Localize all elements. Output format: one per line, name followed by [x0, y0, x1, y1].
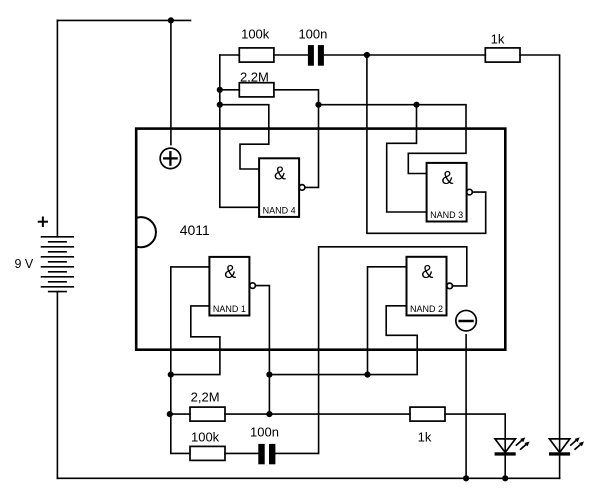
svg-text:9 V: 9 V — [15, 257, 34, 271]
plus supply terminal circle — [160, 148, 181, 169]
wire NAND2 input 2 loop from NAND1 output node — [269, 306, 417, 375]
wire 2,2M bottom left — [170, 413, 190, 415]
wire NAND1 output down to 2,2M right node — [255, 286, 269, 415]
node junction dot NAND1 inputs — [168, 372, 174, 378]
resistor R3 2.2M top — [239, 83, 274, 97]
svg-text:&: & — [224, 262, 236, 282]
svg-text:100n: 100n — [250, 425, 279, 440]
op NAND 4 gate U1d — [259, 158, 305, 217]
wire 2,2M left to net vertical — [220, 89, 240, 91]
svg-text:NAND 1: NAND 1 — [213, 304, 246, 314]
minus supply terminal circle — [456, 310, 477, 331]
node junction dot 2,2M left — [217, 87, 223, 93]
svg-text:2,2M: 2,2M — [191, 390, 220, 405]
resistor R5 100k bottom — [190, 446, 225, 460]
wire from top rail down to plus terminal circle — [170, 20, 172, 144]
capacitor C1 100n top — [308, 45, 324, 66]
node junction dot NAND1 output branch — [266, 372, 272, 378]
wire NAND2 input 1 down to node — [368, 267, 407, 375]
wire top rail from battery to stub end — [57, 19, 190, 21]
node junction dot 2,2M bottom left — [167, 411, 173, 417]
wire NAND2 output loop down to capacitor — [275, 247, 466, 454]
svg-text:100n: 100n — [298, 26, 327, 41]
wire NAND4 output up to net B — [305, 105, 319, 188]
wire net A vertical down to NAND4 input 2 — [220, 55, 259, 207]
svg-text:&: & — [421, 262, 433, 282]
svg-text:NAND 4: NAND 4 — [263, 206, 296, 216]
node junction dot NAND2 input 1 — [364, 372, 370, 378]
node junction dot LED1 bottom — [502, 475, 508, 481]
node junction dot minus wire on bottom rail — [463, 475, 469, 481]
node junction dot cap output node — [364, 52, 370, 58]
IC notch semicircle — [138, 217, 156, 247]
wire NAND1 input 1 down to bottom node — [171, 267, 210, 454]
svg-text:&: & — [441, 168, 453, 188]
wire bottom rail — [57, 477, 559, 479]
node junction dot net B left — [315, 102, 321, 108]
wire 1k right down to LED2 and bottom rail — [520, 55, 560, 478]
wire 100k left to net vertical — [220, 54, 240, 56]
svg-text:NAND 2: NAND 2 — [410, 304, 443, 314]
LED D2 — [549, 437, 584, 455]
resistor R1 100k top — [239, 48, 274, 62]
wire 2,2M bottom right to 1k bottom — [225, 413, 410, 415]
op NAND 3 gate U1c — [427, 163, 473, 222]
wire net A horizontal to NAND4 input 1 — [220, 105, 269, 169]
resistor R6 1k bottom — [410, 407, 445, 421]
node junction dot net A — [217, 102, 223, 108]
wire 2,2M right down to node B — [274, 90, 319, 105]
resistor R2 1k top — [485, 48, 520, 62]
node junction dot NAND1 out at 2,2M right — [266, 411, 272, 417]
wire battery bottom to bottom rail — [56, 292, 58, 479]
node junction dot top rail — [168, 17, 174, 23]
wire 100k right to capacitor — [274, 54, 308, 56]
op NAND 1 gate U1a — [209, 257, 255, 316]
svg-text:&: & — [274, 164, 286, 184]
wire capacitor right to 1k resistor — [324, 54, 485, 56]
wire 100k bottom right to capacitor — [225, 452, 258, 454]
wire minus terminal down to bottom rail — [465, 335, 467, 479]
IC U1 4011 package outline — [136, 129, 505, 350]
capacitor C2 100n bottom — [258, 444, 275, 464]
wire net B branch to NAND3 input 2 — [387, 105, 427, 212]
battery plus polarity mark — [39, 218, 47, 227]
svg-text:100k: 100k — [191, 430, 220, 445]
wire NAND3 output to cap node — [367, 55, 486, 233]
svg-text:100k: 100k — [241, 26, 270, 41]
resistor R4 2,2M bottom — [190, 407, 225, 421]
svg-text:4011: 4011 — [180, 222, 210, 238]
battery BT1 9V — [42, 237, 74, 292]
wire NAND1 input 2 loop — [171, 306, 220, 375]
op NAND 2 gate U1b — [407, 257, 453, 316]
svg-text:NAND 3: NAND 3 — [430, 210, 463, 220]
LED D1 — [495, 437, 530, 455]
wire net B horizontal to NAND3 input 1 — [319, 105, 467, 174]
wire left rail battery top — [56, 20, 58, 236]
wire 1k bottom right down to LED1 — [445, 414, 505, 478]
svg-text:1k: 1k — [491, 31, 505, 46]
svg-text:2,2M: 2,2M — [240, 70, 269, 85]
node junction dot net B right — [413, 102, 419, 108]
svg-text:1k: 1k — [418, 430, 432, 445]
